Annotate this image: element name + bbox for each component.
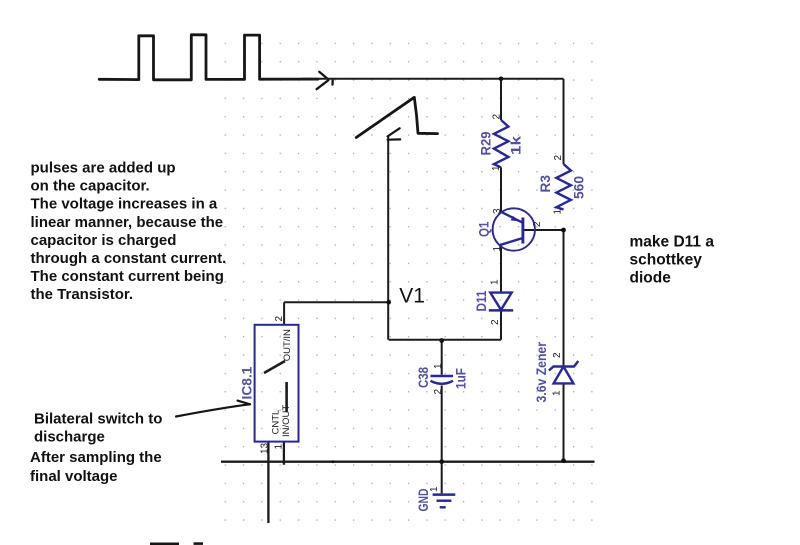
svg-text:2: 2	[433, 389, 444, 395]
svg-text:IC8.1: IC8.1	[240, 366, 255, 399]
svg-text:make D11 a: make D11 a	[630, 234, 715, 251]
svg-text:V1: V1	[399, 284, 425, 307]
svg-text:D11: D11	[474, 290, 489, 311]
svg-text:schottkey: schottkey	[630, 252, 703, 269]
svg-text:3.6v Zener: 3.6v Zener	[534, 341, 549, 402]
svg-text:2: 2	[490, 319, 501, 325]
svg-text:1k: 1k	[509, 135, 524, 155]
svg-text:Bilateral switch to: Bilateral switch to	[34, 411, 162, 428]
svg-text:OUT/IN: OUT/IN	[282, 329, 293, 361]
svg-text:1: 1	[429, 486, 440, 492]
svg-text:discharge: discharge	[34, 429, 105, 446]
svg-text:2: 2	[552, 352, 563, 358]
svg-text:diode: diode	[630, 270, 672, 287]
svg-text:3: 3	[492, 208, 503, 214]
svg-text:1: 1	[492, 246, 503, 252]
svg-text:C38: C38	[416, 367, 431, 388]
svg-text:pulses are added up: pulses are added up	[31, 160, 176, 177]
svg-text:1uF: 1uF	[454, 368, 469, 389]
svg-text:on the capacitor.: on the capacitor.	[31, 178, 150, 195]
svg-text:The constant current being: The constant current being	[31, 268, 224, 285]
svg-text:1: 1	[553, 209, 564, 215]
svg-text:1: 1	[552, 390, 563, 396]
svg-text:final voltage: final voltage	[30, 468, 118, 485]
svg-text:linear manner, because the: linear manner, because the	[31, 214, 224, 231]
svg-text:1: 1	[433, 363, 444, 369]
svg-text:R29: R29	[479, 132, 494, 156]
svg-text:After sampling the: After sampling the	[30, 449, 162, 466]
svg-text:The voltage increases in a: The voltage increases in a	[31, 196, 218, 213]
svg-text:560: 560	[572, 176, 587, 199]
svg-text:IN/OUT: IN/OUT	[281, 405, 292, 437]
svg-text:capacitor is charged: capacitor is charged	[31, 232, 177, 249]
svg-text:the Transistor.: the Transistor.	[31, 286, 134, 303]
svg-text:Q1: Q1	[477, 221, 492, 237]
svg-text:1: 1	[490, 279, 501, 285]
svg-text:2: 2	[532, 221, 543, 227]
svg-text:through a constant current.: through a constant current.	[31, 250, 227, 267]
svg-text:2: 2	[274, 316, 285, 322]
svg-text:2: 2	[492, 114, 503, 120]
svg-text:2: 2	[553, 155, 564, 161]
svg-text:1: 1	[491, 165, 502, 171]
svg-text:CNTL: CNTL	[270, 410, 281, 435]
svg-text:1: 1	[274, 444, 285, 450]
svg-text:13: 13	[260, 442, 271, 454]
svg-text:R3: R3	[538, 175, 553, 193]
